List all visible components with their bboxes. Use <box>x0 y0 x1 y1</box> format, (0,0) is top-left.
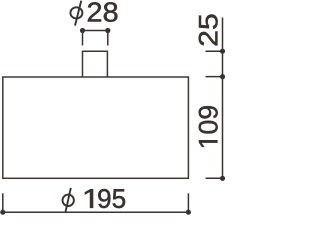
bottom dimension line phi195 <box>3 193 189 212</box>
bottom dimension dots <box>0 210 191 215</box>
label 25 rotated <box>199 15 218 46</box>
right dimension dots <box>220 49 225 181</box>
label phi195 digits 195 <box>85 189 93 208</box>
mounting stem outline <box>83 51 108 77</box>
fixture body outline <box>3 77 189 178</box>
label phi28 digits 28 <box>88 2 118 21</box>
dimension line phi28 (top) <box>83 31 108 46</box>
label phi28 phi symbol <box>70 1 82 26</box>
label 109 rotated <box>199 106 218 147</box>
dimension dots phi28 <box>80 28 111 33</box>
right vertical dimension line <box>206 18 223 179</box>
label phi195 phi symbol <box>62 188 73 213</box>
